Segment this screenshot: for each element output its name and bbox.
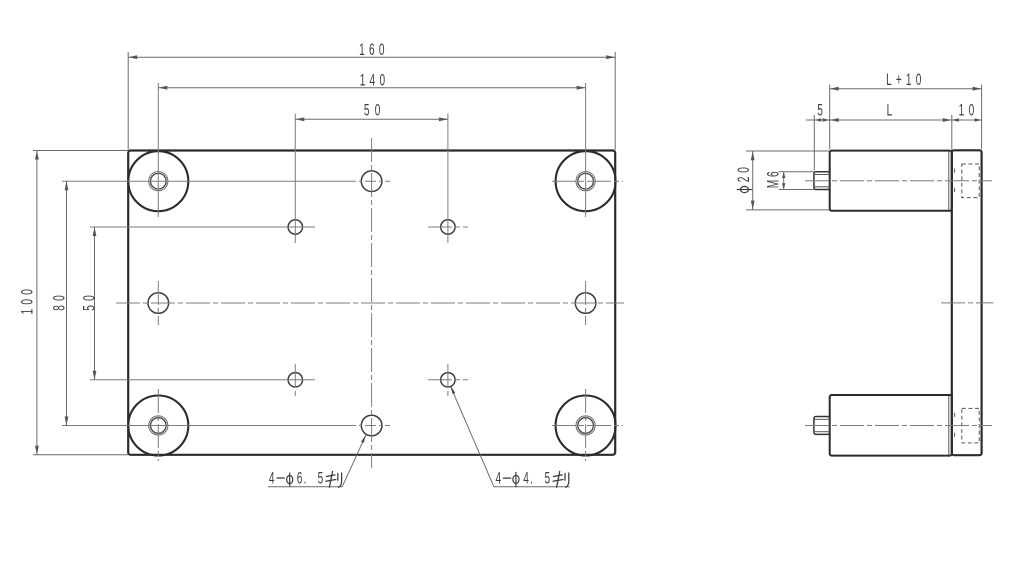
dimension and extension lines side view (746, 85, 982, 210)
centerline plate middle (941, 302, 993, 304)
arrow 50top left (295, 117, 304, 121)
hole phi6.5 mid-left (148, 293, 169, 314)
arrow 100 top (35, 151, 39, 160)
arrow 160 left (128, 55, 137, 59)
dim line phi20 (752, 151, 754, 209)
dim line 160 (128, 56, 615, 58)
svg-text:L+10: L+10 (886, 71, 921, 89)
arrow M6 bottom (782, 183, 785, 189)
svg-text:5: 5 (817, 101, 823, 119)
centerline column left x=158.3 (157, 83, 159, 217)
hole phi4.5 upper-left (288, 220, 302, 234)
extension line phi20 bottom (746, 209, 829, 211)
centerline row phi4.5 bottom y=379.8 (90, 379, 315, 381)
standoff inner circle bottom-left (151, 418, 167, 434)
hidden tapped hole upper (dashed) (955, 164, 980, 198)
arrow 5 right (823, 118, 830, 121)
centerline row phi4.5 top right seg (428, 226, 468, 228)
svg-text:10: 10 (959, 101, 975, 119)
dim line L (830, 119, 952, 121)
extension line 160 left (127, 52, 129, 150)
hidden tapped hole lower (dashed) (955, 408, 980, 443)
plate outline (128, 151, 615, 455)
standoff inner circle bottom-right (578, 418, 594, 434)
hole phi4.5 upper-right (441, 220, 455, 234)
standoff thread arc bottom-left (149, 416, 168, 435)
arrow L+10 right (973, 87, 982, 91)
centerlines front view: near-solid extension runs through holes (62, 83, 586, 426)
label kiri glyphs (katakana) for phi6.5 (326, 471, 342, 487)
standoff big circle bottom-left (128, 396, 188, 456)
standoff thread arc top-left (149, 172, 168, 191)
arrow 5 left (814, 118, 821, 121)
dimension and extension lines front view (33, 52, 615, 455)
centerlines front view: dash-dot free runs (116, 138, 624, 468)
hole phi6.5 top-center (361, 171, 382, 192)
arrow 50left bottom (93, 371, 97, 380)
hole phi4.5 lower-left (288, 373, 302, 387)
centerline row phi4.5 bottom right seg (428, 379, 468, 381)
extension line 160 right (614, 52, 616, 150)
label phi4.5 phi symbol (513, 472, 519, 487)
arrow 160 right (606, 55, 615, 59)
label kiri glyphs (katakana) for phi4.5 (553, 471, 569, 487)
leader phi4.5 arrowhead (451, 386, 456, 394)
arrow 50top right (439, 117, 448, 121)
arrow L right (943, 118, 952, 122)
svg-text:100: 100 (18, 289, 36, 314)
arrow 10 left (952, 118, 959, 121)
centerline row bottom y=425 solid run (62, 425, 345, 427)
svg-text:80: 80 (50, 295, 68, 311)
dim line 50 top (295, 118, 448, 120)
arrow 10 right (975, 118, 982, 121)
centerline column right mid+bottom segs (585, 281, 587, 325)
dim line 100 (36, 151, 38, 455)
svg-text:20: 20 (735, 167, 753, 182)
dim line L+10 (830, 88, 982, 90)
leader phi6.5 arrowhead (361, 435, 366, 443)
dim line 80 (66, 181, 68, 425)
label phi6.5 phi symbol (287, 473, 293, 487)
svg-text:L: L (887, 101, 893, 119)
extension line M6 bottom (779, 189, 814, 191)
centerline lower cylinder (805, 425, 992, 427)
centerline column phi4.5 left x=295.3 (294, 114, 296, 244)
centerline row top right segment (552, 180, 623, 182)
centerlines side view (805, 181, 993, 426)
extension line M6 top (779, 171, 814, 173)
arrow 140 right (577, 86, 586, 90)
lower cylinder end tangent line (948, 396, 950, 455)
centerline column left mid+bottom segs (157, 281, 159, 325)
label phi6.5 minus sign (277, 477, 285, 479)
hole phi6.5 mid-right (575, 293, 596, 314)
svg-text:140: 140 (360, 71, 385, 89)
dim line 50 left (94, 227, 96, 380)
extension line 100 bottom (33, 454, 128, 456)
extension line bolt face x=814.3 (813, 115, 815, 171)
upper bolt head (814, 172, 830, 190)
leader phi6.5 (268, 435, 366, 487)
standoff big circle bottom-right (556, 396, 616, 456)
leader phi4.5 (451, 387, 570, 487)
centerline row phi4.5 top y=227 (90, 226, 315, 228)
extension line cylinder face x=829.7 (829, 85, 831, 150)
centerline row bottom right segment (552, 425, 623, 427)
standoff big circle top-left (128, 151, 188, 211)
arrowheads side view (751, 87, 982, 210)
centerline column phi4.5 right x=447.9 (447, 114, 449, 244)
hole phi4.5 lower-right (441, 373, 455, 387)
hole phi6.5 bottom-center (361, 415, 382, 436)
dim line 5 tail (806, 119, 830, 121)
upper bolt head chamfer lines (814, 174, 829, 176)
arrow 80 bottom (65, 417, 69, 426)
dim line 140 (158, 87, 585, 89)
svg-text:M6: M6 (764, 171, 782, 188)
centerline column middle x=371.6 (371, 138, 373, 468)
arrow 100 bottom (35, 446, 39, 455)
centerline row middle y=303 (116, 302, 624, 304)
svg-text:50: 50 (364, 101, 380, 119)
arrow 80 top (65, 181, 69, 190)
extension line plate front x=951.8 (951, 115, 953, 150)
arrow M6 top (782, 172, 785, 178)
standoff thread arc top-right (576, 172, 595, 191)
arrow phi20 bottom (751, 201, 755, 210)
standoff thread arc bottom-right (576, 416, 595, 435)
lower standoff cylinder body (830, 395, 952, 456)
side plate outline (952, 150, 982, 455)
standoff big circle top-right (556, 151, 616, 211)
lower bolt head chamfer lines (814, 418, 829, 420)
centerline row top y=181 solid run (62, 180, 345, 182)
arrow 140 left (158, 86, 167, 90)
arrowheads front view (35, 55, 615, 455)
arrow L left (830, 118, 839, 122)
dim text phi20 rotated: phi symbol (737, 186, 752, 192)
svg-text:160: 160 (359, 41, 384, 59)
lower bolt head (814, 417, 830, 435)
extension line plate back x=981.6 (981, 85, 983, 150)
standoff inner circle top-right (578, 173, 594, 189)
arrow L+10 left (830, 87, 839, 91)
arrow phi20 top (751, 151, 755, 160)
extension line 100 top (33, 150, 128, 152)
centerline column right x=585.6 (585, 83, 587, 217)
label phi4.5 minus sign (503, 477, 511, 479)
standoff inner circle top-left (151, 173, 167, 189)
centerline column phi4.5 bottom segs (294, 364, 296, 396)
upper cylinder end tangent line (948, 152, 950, 210)
extension line phi20 top (746, 150, 829, 152)
svg-text:50: 50 (80, 295, 98, 311)
dim line M6 (783, 172, 785, 190)
upper standoff cylinder body (830, 151, 952, 211)
dim line 10 (952, 119, 982, 121)
arrow 50left top (93, 227, 97, 236)
centerline upper cylinder (805, 180, 992, 182)
